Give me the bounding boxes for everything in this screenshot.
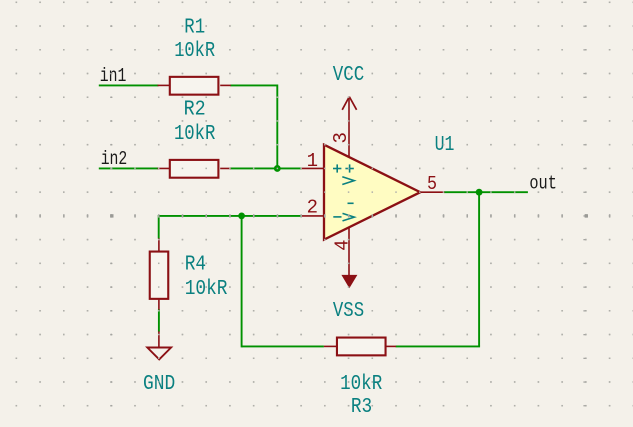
wire corner down to node A	[276, 84, 278, 168]
pin R2 right	[220, 167, 231, 169]
pin 4 op-amp + VSS stem	[348, 227, 350, 276]
grid marker A	[110, 214, 113, 217]
resistor R3 body	[337, 338, 386, 356]
wire in1 to R1	[99, 84, 159, 86]
pin R4 top	[158, 238, 160, 251]
pin R4 bottom	[158, 300, 160, 310]
wire output down	[478, 192, 480, 346]
resistor R1 body	[170, 77, 219, 95]
op-amp V+ label (rotated)	[342, 164, 354, 184]
pin R3 left	[324, 345, 336, 347]
resistor R4 body	[150, 252, 169, 299]
wire R4 bottom to GND	[158, 309, 160, 331]
grid dash row	[16, 214, 611, 217]
pin 3 op-amp + VCC stem	[348, 97, 350, 158]
junction node out	[476, 189, 483, 196]
op-amp input + marker	[333, 164, 341, 172]
junction node B	[238, 213, 245, 220]
wire pin5 to out label	[444, 191, 528, 193]
wire feedback horizontal to pin2	[159, 215, 302, 217]
junction node A	[274, 165, 281, 172]
op-amp input - marker	[333, 216, 341, 218]
pin 1 op-amp	[301, 167, 324, 169]
pin GND	[158, 331, 160, 346]
resistor R2 body	[170, 160, 219, 178]
grid dash columns	[110, 2, 585, 407]
wire R2 to op-amp pin1	[230, 167, 301, 169]
pin 2 op-amp	[301, 215, 324, 217]
wire R1 right to corner	[230, 84, 277, 86]
grid marker B	[585, 214, 588, 217]
pin R2 left	[158, 167, 170, 169]
pin R3 right	[386, 345, 396, 347]
wire down to R4	[158, 215, 160, 239]
pin 5 op-amp	[420, 191, 445, 193]
VCC power arrow	[342, 97, 356, 110]
wire bottom right to R3	[396, 345, 480, 347]
op-amp U1 triangle	[324, 145, 420, 240]
op-amp V- label (rotated)	[343, 203, 355, 221]
VSS power arrow (filled)	[341, 275, 357, 288]
pin R1 right	[220, 84, 231, 86]
wire in2 to R2	[99, 167, 159, 169]
pin R1 left	[158, 84, 170, 86]
wire R3 left to corner	[242, 345, 324, 347]
GND symbol	[147, 348, 171, 360]
wire up to node B	[241, 216, 243, 347]
